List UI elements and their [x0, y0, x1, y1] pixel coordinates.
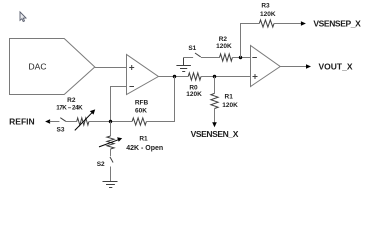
svg-text:R1: R1 — [225, 93, 234, 100]
mouse cursor — [20, 12, 26, 22]
wire U1 output to R0 — [158, 76, 188, 78]
resistor RFB — [132, 118, 146, 125]
ground (S1) — [176, 58, 191, 72]
wire R2var to node — [89, 121, 132, 123]
svg-text:120K: 120K — [260, 11, 276, 18]
svg-text:REFIN: REFIN — [9, 117, 35, 127]
wire REFIN arrow — [45, 119, 59, 124]
wire RFB to U1 output — [146, 77, 174, 122]
switch S2 — [110, 149, 113, 182]
svg-text:S1: S1 — [188, 45, 196, 52]
svg-text:S3: S3 — [57, 127, 65, 134]
svg-text:R1: R1 — [139, 135, 148, 142]
wire DAC output to U1 + input — [95, 67, 127, 69]
op-amp U2 — [251, 46, 281, 87]
svg-text:42K - Open: 42K - Open — [126, 145, 163, 152]
node junction U2 - input — [239, 56, 242, 59]
resistor R2 variable — [75, 109, 95, 130]
wire R0 to U2 + input — [201, 76, 251, 78]
svg-text:VOUT_X: VOUT_X — [319, 62, 353, 72]
ground (S2) — [103, 182, 118, 188]
op-amp U1 — [127, 55, 159, 95]
DAC block — [10, 39, 95, 95]
svg-text:VSENSEN_X: VSENSEN_X — [191, 129, 239, 139]
resistor R1 — [211, 77, 218, 128]
switch S3 — [60, 118, 76, 122]
resistor R3 — [259, 20, 274, 27]
svg-text:RFB: RFB — [135, 100, 149, 107]
switch S1 — [184, 53, 220, 58]
svg-text:60K: 60K — [135, 107, 147, 114]
node junction U1 output — [173, 75, 176, 78]
wire node to R3 — [241, 24, 260, 58]
wire U1 - input to bottom node — [111, 87, 127, 122]
svg-text:VSENSEP_X: VSENSEP_X — [313, 18, 361, 28]
wire R3 to VSENSEP_X arrow — [274, 21, 306, 26]
resistor R1 variable 42K — [99, 122, 122, 150]
wire U2 output to VOUT_X arrow — [280, 64, 311, 69]
node junction bottom — [109, 120, 112, 123]
node junction R1 top — [213, 75, 216, 78]
svg-text:R3: R3 — [261, 3, 270, 10]
svg-text:R2: R2 — [219, 36, 228, 43]
svg-text:120K: 120K — [222, 102, 238, 109]
svg-text:120K: 120K — [216, 43, 232, 50]
svg-text:17K – 24K: 17K – 24K — [56, 105, 83, 112]
resistor R2 — [220, 54, 233, 61]
resistor R0 — [188, 73, 201, 80]
svg-text:120K: 120K — [186, 91, 202, 98]
svg-text:S2: S2 — [97, 161, 105, 168]
wire R2 to U2 - input — [232, 57, 250, 59]
svg-text:DAC: DAC — [29, 62, 47, 72]
svg-text:R2: R2 — [67, 97, 76, 104]
